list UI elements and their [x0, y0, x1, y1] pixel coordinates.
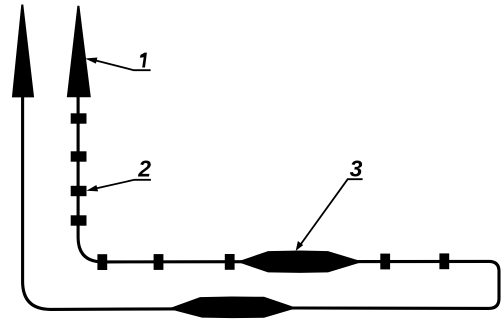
bead B6 on horizontal line — [97, 254, 107, 270]
label 2 leader — [97, 180, 151, 189]
label 3 arrowhead — [296, 241, 304, 251]
label 2 arrowhead — [86, 185, 98, 191]
antenna spike right (1) — [67, 6, 91, 98]
bead B7 on horizontal line — [154, 254, 164, 270]
bead B9 on horizontal line — [380, 254, 390, 270]
bead B2 on vertical line — [71, 151, 87, 161]
bead B4 on vertical line — [71, 215, 87, 225]
antenna spike left — [12, 5, 34, 98]
svg-text:3: 3 — [350, 156, 363, 182]
label 1 leader — [96, 61, 150, 71]
splice body lower — [168, 297, 297, 319]
label 1 arrowhead — [85, 58, 97, 64]
bead B10 on horizontal line — [439, 253, 449, 269]
wire — [23, 92, 499, 309]
bead B3 on vertical line (2) — [71, 186, 87, 196]
bead B1 on vertical line — [71, 113, 87, 123]
label 1 text (digit drawn as path) — [140, 53, 147, 68]
splice body upper (3) — [237, 251, 363, 273]
bead B8 on horizontal line — [225, 254, 235, 270]
label 3 leader — [300, 179, 362, 245]
svg-text:2: 2 — [137, 156, 151, 182]
